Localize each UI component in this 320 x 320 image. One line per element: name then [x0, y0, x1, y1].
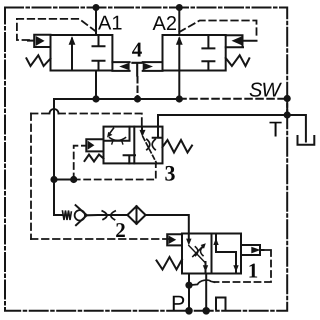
- tank symbol: [298, 136, 315, 145]
- valve 3 blocked port bottom left: [124, 155, 135, 163]
- valve V-A2 body: [163, 35, 226, 71]
- node A2 line: [178, 8, 180, 36]
- wire plugged port: [205, 274, 207, 311]
- svg-text:SW: SW: [249, 79, 283, 101]
- valve V-A1 blocked port bottom: [93, 61, 105, 71]
- valve V-A2 blocked port top: [202, 35, 214, 48]
- valve 3 pilot spring: [85, 155, 104, 162]
- wire A2 valve to manifold: [178, 71, 180, 100]
- shuttle element 4 left arrow: [119, 63, 129, 71]
- svg-text:4: 4: [132, 37, 143, 61]
- junction dot A2 top: [176, 4, 183, 11]
- valve 1 right pilot dashed: [215, 250, 272, 282]
- SW dashed wire: [179, 98, 287, 100]
- shuttle element 4 tee: [132, 63, 141, 76]
- valve 3 seat curve: [110, 138, 126, 141]
- valve V-A1 spring: [26, 55, 50, 66]
- valve V-A2 flow arrow: [178, 39, 180, 71]
- pilot hop over port line: [189, 280, 215, 285]
- valve 1 left bottom port arrow: [205, 262, 207, 274]
- wire P port: [188, 274, 190, 311]
- check valve spring: [63, 211, 72, 221]
- wire stub junction: [54, 179, 74, 181]
- valve 1 divider: [211, 234, 213, 274]
- valve V-A2 pilot box: [226, 35, 257, 47]
- valve 3 top pilot port arrow: [141, 127, 143, 131]
- junction dot SW: [284, 95, 291, 102]
- valve V-A1 pilot box: [28, 35, 51, 47]
- valve 3 dashed diagonal: [143, 137, 157, 164]
- valve 1 flow diagonal: [189, 246, 206, 264]
- valve 3 pilot box: [86, 139, 103, 151]
- valve 1 left pilot arrow: [167, 234, 182, 245]
- wire T line: [158, 115, 306, 142]
- svg-text:1: 1: [248, 259, 258, 283]
- manifold wire: [54, 98, 179, 100]
- junction dot plug bottom: [202, 307, 210, 315]
- wire left drop: [53, 99, 55, 215]
- valve 3 seat ticks: [112, 141, 123, 144]
- junction dot manifold mid: [134, 95, 141, 102]
- junction dot P bottom: [185, 307, 193, 315]
- valve 1 right pilot box: [241, 245, 264, 255]
- valve 3 body: [104, 127, 163, 164]
- valve V-A1 body: [51, 35, 113, 71]
- junction dot T: [284, 111, 291, 118]
- junction dot A1 top: [93, 4, 100, 11]
- pilot line hop over left drop: [50, 109, 59, 113]
- valve V-A1 blocked port top: [93, 35, 105, 46]
- svg-text:A2: A2: [153, 13, 177, 35]
- check valve seat: [76, 205, 87, 225]
- valve 1 left top port arrow: [188, 234, 190, 240]
- shuttle element 4 dashed stem: [137, 77, 139, 97]
- svg-text:T: T: [269, 118, 282, 142]
- valve V-A1 pilot dashed line: [17, 19, 96, 40]
- wire A1 valve to manifold: [95, 71, 97, 100]
- svg-text:P: P: [171, 292, 185, 316]
- shuttle element 4 right arrow: [143, 63, 153, 71]
- valve 3 pilot dashed from junctions: [74, 146, 156, 180]
- svg-text:A1: A1: [98, 13, 122, 35]
- junction dot pilot: [70, 176, 77, 183]
- valve 3 inner seat box: [104, 127, 130, 141]
- valve 1 body: [182, 234, 241, 274]
- valve 3 blocked port top right: [153, 127, 163, 138]
- filter diamond: [127, 206, 145, 224]
- valve V-A2 pilot dashed line: [179, 21, 256, 36]
- node A1 line: [95, 8, 97, 36]
- valve 3 divider: [133, 127, 135, 164]
- border segment SW-T solid: [286, 99, 288, 116]
- throttle element 2: [102, 211, 115, 220]
- check valve ball: [75, 210, 85, 220]
- junction dot manifold A2: [176, 95, 183, 102]
- junction dot left drop: [50, 176, 57, 183]
- svg-text:2: 2: [115, 218, 126, 242]
- svg-text:3: 3: [165, 161, 176, 186]
- element 2 wire right: [146, 215, 189, 234]
- junction dot manifold A1: [92, 95, 99, 102]
- element 2 wire left: [54, 214, 63, 216]
- valve 1 right square path: [216, 234, 236, 274]
- element 2 wire mid: [87, 214, 128, 216]
- valve V-A1 flow arrow: [71, 39, 73, 71]
- valve V-A2 blocked port bottom: [202, 61, 214, 70]
- valve 1 adjust arrow: [193, 247, 202, 257]
- valve 3 pilot dashed top line with hop: [31, 114, 168, 240]
- valve 3 throttle arcs: [147, 139, 155, 149]
- valve 3 seat arrow: [110, 128, 114, 133]
- valve 1 spring: [157, 257, 183, 270]
- plug symbol: [216, 298, 226, 310]
- valve V-A2 spring: [226, 55, 250, 66]
- shuttle element 4 channels: [112, 62, 162, 71]
- junction dot pilot P: [185, 282, 192, 289]
- valve 1 throttle: [195, 247, 203, 256]
- valve 3 spring: [163, 140, 193, 153]
